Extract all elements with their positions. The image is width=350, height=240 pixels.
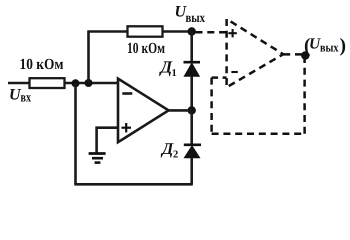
svg-text:1: 1 — [172, 68, 177, 79]
label node U_вых — [175, 4, 206, 25]
wire top rail right segment — [163, 30, 192, 33]
svg-text:вых: вых — [186, 10, 206, 25]
svg-text:): ) — [340, 36, 347, 57]
wire column: output node to diode D2 cathode — [190, 110, 193, 144]
op-amp U2 phantom triangle (dashed) — [227, 19, 284, 87]
wire input stub — [8, 82, 30, 85]
resistor R2 (10 kOhm feedback) — [128, 26, 163, 36]
op-amp U1 non-inverting input marker (+) — [122, 123, 132, 132]
wire bottom rail — [74, 183, 193, 186]
op-amp U2 non-inverting input marker (+) — [228, 29, 236, 37]
wire top rail left segment — [87, 30, 127, 33]
wire dashed: feedback right vertical — [303, 56, 306, 134]
svg-text:10 кОм: 10 кОм — [127, 40, 165, 57]
ground — [89, 154, 106, 163]
diode D1 (Д1) — [184, 62, 201, 76]
svg-text:вых: вых — [320, 41, 339, 55]
node junction dot (to bottom rail) — [72, 79, 80, 87]
wire dashed: inverting input stub — [212, 76, 227, 79]
wire column: D1 anode to op-amp output node — [190, 76, 193, 110]
wire dashed: feedback bottom horizontal — [212, 133, 305, 136]
wire column: D2 anode to bottom rail — [190, 158, 193, 185]
node junction dot (to feedback) — [85, 79, 93, 87]
wire non-inverting input to ground — [97, 128, 118, 153]
wire dashed: feedback left vertical — [210, 78, 213, 134]
node (U_вых) output dot — [301, 51, 309, 59]
wire column: node to diode D1 cathode — [190, 32, 193, 63]
wire R1 output to op-amp inverting input — [65, 82, 119, 85]
svg-text:2: 2 — [173, 150, 178, 161]
node op-amp output junction dot — [188, 106, 196, 114]
svg-text:Д: Д — [160, 139, 174, 158]
wire dashed: U2 output — [283, 53, 305, 56]
op-amp U1 triangle — [118, 79, 169, 143]
resistor R1 (10 kOhm input) — [30, 78, 65, 88]
node U_вых junction dot — [188, 27, 196, 35]
label Д2 — [160, 139, 178, 161]
wire dashed: U_вых node to phantom op-amp + input — [196, 31, 227, 34]
label input node U_вх — [9, 87, 31, 105]
op-amp U1 inverting input marker (-) — [122, 92, 132, 95]
wire op-amp output — [169, 109, 192, 112]
label Д1 — [159, 58, 177, 80]
op-amp U2 inverting input marker (-) — [231, 71, 237, 73]
label node (U_вых) — [304, 36, 346, 57]
wire feedback up to top — [87, 32, 90, 84]
diode D2 (Д2) — [184, 145, 201, 158]
svg-text:вх: вх — [21, 90, 32, 105]
svg-text:10 кОм: 10 кОм — [20, 56, 64, 73]
wire junction down to bottom rail — [74, 83, 77, 184]
